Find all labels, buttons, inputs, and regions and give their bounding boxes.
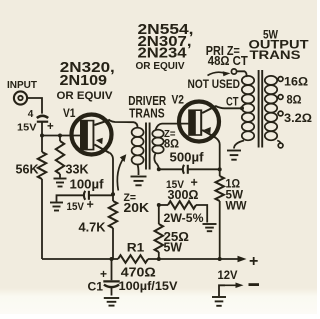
label "OUTPUT" (249, 38, 310, 52)
wire supply minus (219, 283, 244, 296)
wire 56K to bottom rail (41, 179, 43, 259)
transformer T1 core (146, 123, 150, 170)
label "PRI Z=" (206, 44, 240, 58)
capacitor Cin 4uF (37, 116, 48, 122)
node E (218, 167, 222, 171)
label T1 sec "8Ω" (164, 139, 179, 151)
wire V2 emitter down (216, 138, 220, 170)
arrow to NOT USED terminal (208, 71, 231, 76)
svg-text:C1: C1 (88, 280, 104, 294)
svg-text:4: 4 (28, 109, 34, 120)
ground below T1 (131, 177, 147, 186)
label supply "+" (249, 253, 258, 270)
label "WW" (226, 199, 248, 213)
label Cin "15V" (17, 123, 37, 134)
label "2N109" (60, 72, 108, 89)
svg-text:OR EQUIV: OR EQUIV (57, 90, 114, 102)
svg-text:TRANS: TRANS (129, 106, 165, 121)
label "5W" T2 (263, 28, 279, 42)
ground left of C2 (50, 203, 63, 211)
svg-text:2N234: 2N234 (138, 45, 188, 62)
resistor 4.7K (109, 194, 117, 259)
svg-text:20K: 20K (124, 201, 150, 215)
capacitor C2 100uF (57, 191, 114, 202)
svg-text:OR EQUIV: OR EQUIV (136, 60, 185, 72)
label "TRANS" T1 (129, 106, 165, 121)
svg-text:WW: WW (226, 199, 248, 213)
label "25Ω" (164, 230, 190, 244)
label "8Ω" (287, 95, 302, 107)
resistor R1 470 ohm (118, 255, 148, 263)
svg-text:+: + (249, 253, 258, 270)
label "2N234" (138, 45, 188, 62)
node D (157, 167, 161, 171)
svg-text:8Ω: 8Ω (164, 139, 179, 151)
ground supply minus (212, 297, 226, 306)
label "V2" (172, 95, 185, 107)
svg-text:8Ω: 8Ω (287, 95, 302, 107)
ground below 33K (54, 179, 67, 187)
label C2 "+" (87, 198, 94, 212)
label T1 "20K" (124, 201, 150, 215)
capacitor C3 500uF (159, 165, 220, 174)
node C emitter junction (111, 192, 115, 196)
ground below T2 (227, 151, 241, 160)
label INPUT (7, 80, 37, 91)
node F (157, 203, 161, 207)
label C3 "+" (191, 176, 198, 190)
label "NOT USED" (188, 79, 241, 91)
transformer T2 secondary winding (265, 76, 277, 140)
node A (40, 134, 44, 138)
transformer T1 secondary winding (152, 130, 163, 154)
ground below 300 ohm (203, 224, 217, 231)
svg-text:100µf/15V: 100µf/15V (119, 279, 178, 293)
resistor R 1 ohm (216, 169, 224, 259)
label T1 sec "Z=" (164, 129, 176, 140)
ground below C1 (104, 298, 119, 306)
wire T2 primary bottom to ground (234, 141, 244, 149)
label "4.7K" (79, 221, 106, 235)
svg-text:470Ω: 470Ω (121, 265, 156, 280)
terminal common (277, 141, 283, 148)
arrow to T1 primary (117, 154, 126, 190)
svg-text:5W: 5W (164, 241, 183, 255)
resistor 56K (38, 136, 46, 180)
label Cin "4" (28, 109, 34, 120)
label "16Ω" (284, 77, 308, 89)
arrow supply plus (220, 256, 247, 263)
label C2 "15V" (67, 201, 85, 213)
wire V1 collector to T1 (110, 120, 138, 128)
label "2W-5%" (164, 213, 204, 225)
label C1 "+" (100, 267, 107, 281)
svg-text:33K: 33K (66, 163, 89, 177)
svg-text:3.2Ω: 3.2Ω (284, 113, 312, 125)
terminal 16 ohm (277, 77, 283, 82)
label "CT" at V2 (226, 97, 239, 109)
svg-text:+: + (47, 121, 54, 133)
svg-text:TRANS: TRANS (250, 48, 301, 62)
svg-text:V2: V2 (172, 95, 185, 107)
label "300Ω" (168, 188, 199, 202)
transistor V2 (179, 102, 219, 142)
label "470Ω" (121, 265, 156, 280)
label "48Ω CT" (208, 54, 248, 68)
resistor 300 ohm (159, 201, 207, 222)
svg-text:NOT USED: NOT USED (188, 79, 241, 91)
terminal 8 ohm (277, 95, 283, 100)
node CT (240, 106, 244, 110)
transformer T2 primary winding (242, 76, 254, 140)
terminal 3.2 ohm (277, 111, 283, 116)
label supply "−" (249, 283, 260, 286)
wire node A to V1 base (42, 135, 81, 137)
wire jack to Cin (27, 98, 42, 114)
node H (25 ohm) (157, 257, 161, 261)
svg-text:48Ω CT: 48Ω CT (208, 54, 248, 68)
label "100µf/15V" (119, 279, 178, 293)
wire bottom rail right (148, 258, 220, 260)
label "33K" (66, 163, 89, 177)
resistor 33K (56, 136, 64, 178)
wire Cin to node A (41, 122, 43, 136)
node G (C1 junction) (110, 257, 114, 261)
label "R1" (127, 241, 145, 255)
input jack J1 (14, 91, 27, 104)
capacitor C1 100uF (103, 259, 119, 296)
label "5W" (1 ohm) (226, 188, 244, 202)
transformer T1 primary winding (132, 128, 144, 165)
label "56K" (16, 163, 39, 177)
svg-text:2N109: 2N109 (60, 72, 108, 89)
label "12V" (218, 268, 238, 282)
label "2N320," (60, 59, 115, 76)
svg-text:300Ω: 300Ω (168, 188, 199, 202)
label "3.2Ω" (284, 113, 312, 125)
label "TRANS" T2 (250, 48, 301, 62)
wire T1 primary bottom to ground (137, 165, 140, 176)
label "5W" (25 ohm) (164, 241, 183, 255)
wire NOT USED to T2 (237, 71, 247, 77)
svg-text:R1: R1 (127, 241, 145, 255)
label "DRIVER" (128, 93, 166, 108)
wire V2 collector to T2 CT (216, 106, 243, 108)
svg-text:12V: 12V (218, 268, 238, 282)
label "500µf" (170, 151, 205, 165)
svg-text:INPUT: INPUT (7, 80, 37, 91)
svg-text:4.7K: 4.7K (79, 221, 106, 235)
node B (58, 134, 62, 138)
svg-text:100µf: 100µf (70, 178, 105, 192)
svg-text:2W-5%: 2W-5% (164, 213, 204, 225)
svg-text:CT: CT (226, 97, 239, 109)
label "2N307," (138, 33, 192, 50)
svg-text:16Ω: 16Ω (284, 77, 308, 89)
label "OR EQUIV" V1 (57, 90, 114, 102)
label "OR EQUIV" V2 (136, 60, 185, 72)
label "100µf" (70, 178, 105, 192)
label "1Ω" (226, 177, 241, 191)
wire V1 emitter down (110, 153, 113, 195)
label "2N554," (138, 21, 194, 38)
svg-text:15V: 15V (17, 123, 37, 134)
wire bottom rail left (42, 258, 118, 260)
node I (supply +) (218, 257, 222, 261)
wire T1 secondary bottom down (154, 153, 158, 170)
label T1 "Z=" (124, 192, 137, 204)
svg-text:+: + (87, 198, 94, 212)
label "C1" (88, 280, 104, 294)
resistor 25 ohm (155, 205, 163, 259)
label Cin "+" (47, 121, 54, 133)
terminal NOT USED (231, 69, 236, 74)
svg-text:500µf: 500µf (170, 151, 205, 165)
svg-text:56K: 56K (16, 163, 39, 177)
transistor V1 (72, 115, 112, 155)
transformer T2 core (259, 70, 263, 148)
wire T1 secondary top to V2 base (156, 124, 189, 130)
label C3 "15V" (166, 179, 185, 191)
label "V1" (63, 108, 76, 120)
svg-text:15V: 15V (67, 201, 85, 213)
svg-text:V1: V1 (63, 108, 76, 120)
